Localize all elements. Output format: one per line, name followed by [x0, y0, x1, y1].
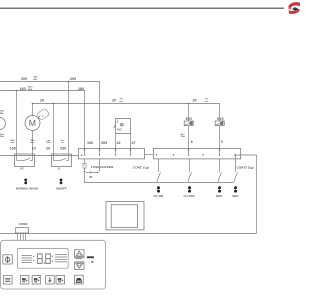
vertical wire 20 to switch	[53, 104, 55, 153]
svg-text:CONT. (1g): CONT. (1g)	[133, 165, 149, 169]
svg-text:Yel: Yel	[61, 142, 65, 144]
svg-text:Wht: Wht	[47, 141, 51, 144]
button 5 (coffee 3)	[56, 276, 65, 284]
switch K2 (wash)	[15, 153, 35, 171]
connector CONN	[16, 222, 29, 240]
vertical wire 100 to switch K1	[16, 91, 18, 153]
strip link wire	[145, 154, 154, 156]
drop wire BOIL	[218, 159, 222, 182]
svg-text:A/C: A/C	[117, 128, 122, 132]
svg-text:100: 100	[10, 146, 16, 150]
svg-text:Wht: Wht	[181, 135, 185, 138]
terminal strip CONT1	[79, 149, 145, 159]
button 1 (key)	[4, 276, 13, 284]
svg-text:5: 5	[221, 140, 223, 144]
svg-text:BOIL: BOIL	[216, 194, 223, 198]
terminal strip CONT2	[154, 149, 241, 159]
svg-text:20: 20	[112, 99, 116, 103]
svg-text:CH 14K: CH 14K	[154, 194, 164, 198]
drop wire CH wash	[157, 159, 161, 182]
svg-text:230: 230	[60, 146, 66, 150]
CONT2 wire to controller	[0, 154, 257, 233]
svg-text:EV2: EV2	[186, 117, 192, 121]
svg-text:CH 1460: CH 1460	[184, 194, 195, 198]
svg-text:20: 20	[40, 99, 44, 103]
title rule	[0, 7, 284, 9]
drop wire CH rinse	[188, 159, 192, 182]
connector pair BOIL	[216, 186, 223, 198]
svg-text:27: 27	[132, 141, 136, 145]
connector pair CH 14K	[154, 186, 164, 198]
wire net 20	[33, 103, 220, 105]
button 2 (coffee 1)	[20, 276, 29, 284]
svg-text:B: B	[58, 168, 60, 171]
motor M1	[25, 104, 50, 153]
svg-text:6: 6	[191, 140, 193, 144]
svg-text:Red: Red	[28, 89, 33, 91]
cable loom line	[85, 173, 234, 183]
svg-text:10: 10	[32, 146, 36, 150]
wire through switches to strip	[0, 155, 79, 157]
up button	[75, 250, 84, 258]
junction on wire 200	[68, 81, 70, 83]
svg-text:20: 20	[193, 99, 197, 103]
svg-text:ON/OFF: ON/OFF	[56, 186, 67, 190]
svg-text:EV3: EV3	[217, 117, 223, 121]
svg-text:22: 22	[117, 141, 121, 145]
svg-text:200: 200	[70, 77, 76, 81]
down button	[75, 262, 84, 270]
svg-text:CONT2 (1g): CONT2 (1g)	[237, 166, 254, 170]
svg-text:200: 200	[21, 77, 27, 81]
svg-text:180: 180	[78, 87, 84, 91]
OK mark	[91, 261, 93, 262]
wire net 180	[0, 91, 85, 149]
svg-text:180: 180	[20, 87, 26, 91]
svg-text:Red: Red	[11, 142, 16, 144]
button 4 (down arrow)	[46, 276, 55, 284]
7-seg digits 8.8	[37, 253, 53, 264]
junction on wire 180	[16, 90, 18, 92]
connector pair REG	[233, 186, 239, 198]
button 3 (coffee 2)	[32, 276, 41, 284]
svg-text:Wht: Wht	[0, 135, 4, 138]
pressure switch A/C	[113, 119, 130, 149]
solenoid valve EV2	[181, 104, 193, 149]
button 6 (steam)	[74, 275, 83, 284]
svg-text:M: M	[29, 118, 36, 128]
connector pair K1	[16, 179, 38, 191]
capacitor on motor	[37, 108, 50, 120]
solenoid valve EV3	[215, 104, 224, 149]
LCD display	[17, 248, 68, 268]
svg-text:100: 100	[87, 141, 93, 145]
pump P (left edge component)	[0, 111, 6, 139]
svg-text:CONN: CONN	[19, 222, 28, 226]
svg-text:NORMAL WASH: NORMAL WASH	[16, 186, 38, 190]
vertical wire 230 to switch	[68, 82, 70, 153]
drop wire REG	[234, 155, 238, 182]
svg-text:Brn: Brn	[31, 142, 35, 144]
logo (red S swirl)	[288, 2, 300, 14]
control panel	[1, 240, 106, 289]
connector pair CH 1460	[184, 186, 195, 198]
svg-text:FUSE HOLDER: FUSE HOLDER	[91, 165, 114, 169]
wire net 200 (top)	[0, 82, 100, 149]
svg-text:REG: REG	[233, 194, 239, 198]
svg-text:20: 20	[46, 146, 50, 150]
power button	[3, 255, 12, 264]
display window (double square)	[106, 202, 144, 230]
svg-text:205: 205	[101, 141, 107, 145]
switch B (on/off)	[52, 153, 72, 171]
connector pair ON/OFF	[56, 179, 67, 191]
MAN label bar	[87, 256, 94, 258]
fuse F1 below strip	[83, 159, 100, 179]
